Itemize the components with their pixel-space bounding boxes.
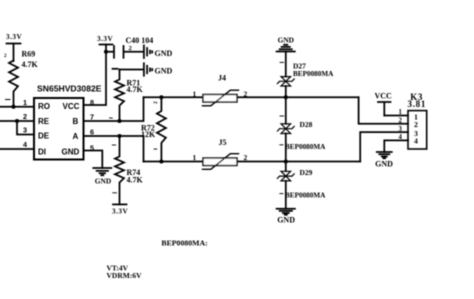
svg-text:1: 1 (193, 90, 197, 99)
wire D29 to ground (285, 181, 287, 209)
wire B net to K3 pin2 (359, 97, 408, 124)
svg-text:4.7K: 4.7K (127, 176, 144, 185)
wire node to D28 (285, 97, 287, 124)
pin tick D27 top (280, 61, 284, 63)
wire DI pin4 (0, 148, 34, 150)
junction node B / D27 (284, 95, 288, 99)
junction node R71 / B wire (117, 119, 121, 123)
svg-text:4.7K: 4.7K (127, 85, 144, 94)
svg-text:2: 2 (244, 153, 248, 162)
wire A pin6 (84, 136, 144, 162)
svg-text:A: A (73, 132, 79, 141)
svg-text:D27: D27 (293, 62, 306, 71)
power 3.3V (top-left) (6, 33, 22, 61)
resistor R71 (115, 70, 144, 122)
IC U1 SN65HVD3082E (RS-485 transceiver) (34, 83, 102, 159)
svg-text:3.3V: 3.3V (112, 207, 128, 215)
svg-text:DI: DI (38, 148, 46, 157)
svg-text:VDRM:6V: VDRM:6V (107, 271, 143, 280)
wire D27 to node (285, 86, 287, 97)
svg-text:3: 3 (23, 126, 27, 135)
junction node VCC rail / C40 (104, 50, 108, 54)
ground (above D27, inverted) (277, 35, 295, 51)
svg-text:4: 4 (414, 136, 418, 145)
svg-text:2: 2 (153, 101, 159, 104)
svg-text:D29: D29 (300, 168, 313, 177)
svg-text:7: 7 (90, 112, 94, 121)
svg-text:RO: RO (38, 102, 50, 111)
svg-text:3.3V: 3.3V (6, 33, 22, 41)
connector K3 (408, 92, 427, 149)
svg-text:2: 2 (399, 118, 403, 125)
svg-text:C40 104: C40 104 (126, 36, 154, 45)
svg-text:4: 4 (399, 134, 403, 141)
svg-text:4: 4 (23, 140, 27, 149)
pin tick R74 bottom (113, 192, 117, 194)
wire RE-DE link (17, 121, 34, 135)
svg-text:GND: GND (155, 49, 173, 58)
svg-text:BEP0080MA: BEP0080MA (285, 192, 326, 200)
svg-text:BEP0080MA: BEP0080MA (285, 143, 326, 151)
wire net A (bottom horizontal) (144, 161, 361, 163)
capacitor C40 104 (106, 36, 153, 58)
svg-text:GND: GND (155, 67, 173, 76)
resistor R74 (115, 136, 144, 204)
junction node R74 / A wire (117, 134, 121, 138)
wire VCC pin8 rail (84, 45, 107, 106)
svg-text:1: 1 (399, 109, 403, 116)
svg-text:J5: J5 (219, 138, 227, 147)
junction node RE/DE (15, 119, 19, 123)
svg-text:GND: GND (62, 148, 80, 157)
wire row2 (120, 69, 144, 71)
svg-text:1: 1 (193, 153, 197, 162)
svg-text:J4: J4 (218, 74, 226, 83)
wire GND to D27 (285, 52, 287, 77)
svg-text:VCC: VCC (375, 92, 393, 101)
svg-text:R69: R69 (22, 50, 36, 59)
power VCC (K3) (375, 92, 393, 116)
svg-text:VCC: VCC (63, 102, 80, 111)
resistor R69 (9, 50, 39, 107)
svg-text:2: 2 (414, 120, 418, 129)
svg-text:B: B (73, 117, 79, 126)
diode D27 (TVS) (277, 62, 334, 87)
wire D28 to A wire (285, 133, 287, 161)
svg-text:6: 6 (90, 127, 94, 136)
ground (K3 pin4) (375, 152, 393, 168)
svg-text:12K: 12K (141, 130, 156, 139)
pin tick B (110, 117, 113, 119)
ground (C40 row, horizontal) (144, 46, 173, 59)
wire RE pin2 (0, 120, 34, 122)
ground (below D29) (277, 209, 296, 225)
wire B pin7 (84, 97, 144, 121)
wire net B (top horizontal) (144, 96, 359, 98)
junction node R72 bottom (159, 159, 163, 163)
junction node A / D29 (284, 159, 288, 163)
power 3.3V (bottom, R74) (112, 204, 128, 215)
svg-text:GND: GND (95, 176, 111, 185)
ground (IC pin5) (93, 168, 111, 185)
svg-text:1: 1 (153, 148, 159, 151)
svg-text:GND: GND (375, 159, 393, 168)
wire GND pin5 (84, 151, 103, 169)
wire K3 pin4 to ground (384, 140, 408, 152)
svg-text:1: 1 (23, 98, 27, 107)
svg-text:BEP0080MA: BEP0080MA (293, 70, 334, 78)
pin tick D28 top (280, 115, 284, 117)
svg-text:2: 2 (244, 90, 248, 99)
svg-text:2: 2 (4, 54, 7, 59)
diode D28 (TVS) (277, 120, 326, 151)
resistor R72 (141, 97, 166, 161)
svg-text:DE: DE (38, 132, 50, 141)
wire node to D29 (285, 162, 287, 172)
svg-text:GND: GND (278, 35, 294, 44)
svg-text:3.81: 3.81 (408, 99, 427, 109)
svg-text:D28: D28 (300, 120, 313, 129)
wire VCC to K3 pin1 (384, 115, 408, 117)
svg-text:BEP0080MA:: BEP0080MA: (161, 238, 207, 247)
svg-text:RE: RE (38, 117, 50, 126)
svg-text:4.7K: 4.7K (22, 60, 39, 69)
svg-text:3: 3 (399, 126, 403, 133)
junction node R69 / pin1 (11, 105, 15, 109)
wire row2 stub (113, 68, 118, 70)
ground (row2, horizontal) (144, 63, 173, 76)
diode D29 (TVS) (277, 168, 326, 200)
svg-text:GND: GND (277, 215, 295, 224)
varistor J5 (193, 138, 248, 169)
wire A net to K3 pin3 (360, 132, 408, 161)
power 3.3V (top-middle) (97, 35, 113, 45)
varistor J4 (193, 74, 248, 106)
wire RO pin1 (0, 106, 34, 108)
junction node R72 top (159, 95, 163, 99)
svg-text:2: 2 (23, 112, 27, 121)
pin tick R74 top (112, 144, 115, 146)
svg-text:SN65HVD3082E: SN65HVD3082E (37, 83, 102, 93)
pin-number tick (left edge) (6, 99, 11, 101)
svg-text:2: 2 (129, 45, 132, 52)
svg-text:3.3V: 3.3V (97, 35, 113, 43)
